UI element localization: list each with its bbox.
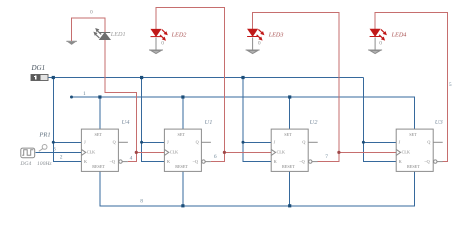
wire net7 LED3 to U2 ~Q and U3 CLK [253,13,397,162]
LED LED3 (red, on) [247,29,264,40]
wire net1 feeder to U1 J/K [142,78,165,162]
junction dot RESET bus to U2 [288,204,291,207]
wire net5 LED4 to U3 ~Q [375,13,447,162]
wire net3 PR1 clock to U4 CLK [35,151,81,153]
junction dot at U2 J branch [242,141,245,144]
LED LED2 (red, on) [151,29,168,40]
svg-text:LED2: LED2 [171,31,187,38]
svg-text:DG1: DG1 [31,64,46,72]
svg-text:5: 5 [449,82,452,88]
ground GND3 (below LED3) [246,38,260,54]
wire net1 feeder to U3 J/K [363,78,396,162]
svg-text:SET: SET [95,132,103,137]
flip-flop U1 [164,129,211,171]
junction dot SET bus to U4 [98,95,101,98]
svg-text:2: 2 [60,155,63,161]
junction dot at U3 J branch [362,141,365,144]
svg-text:CLK: CLK [277,150,285,155]
wire net1 bus from DG1 (horizontal J/K supply bus) [48,77,363,79]
svg-text:1: 1 [83,91,86,97]
svg-text:LED4: LED4 [391,31,407,38]
LED LED1 (gray, off) [93,28,110,40]
svg-text:100Hz: 100Hz [37,161,52,167]
digital constant DG1 [31,74,48,80]
svg-text:6: 6 [214,154,217,160]
svg-text:Q: Q [302,140,305,145]
clock source PR1 [21,148,35,158]
junction dot net6 at U2 CLK branch [223,151,226,154]
svg-text:K: K [399,159,402,164]
svg-text:0: 0 [258,40,261,46]
svg-text:DG4: DG4 [19,161,31,167]
flip-flop U2 [271,129,318,171]
junction dot net7 at U3 CLK branch [337,151,340,154]
svg-text:K: K [84,159,87,164]
wire net1 feeder to U4 J/K [53,78,81,162]
junction dot at U1 J branch [140,141,143,144]
svg-text:3: 3 [53,147,56,153]
PR1 interactive key icon [39,145,47,152]
wire net1 feeder to U2 J/K [243,78,271,162]
svg-text:RESET: RESET [407,164,420,169]
ground GND1 (left of LED1) [66,41,76,45]
svg-text:U3: U3 [435,119,444,126]
svg-text:CLK: CLK [170,150,178,155]
ground GND4 (below LED4) [368,38,382,54]
junction dot RESET bus to U1 [181,204,184,207]
junction dot SET bus to U2 [288,95,291,98]
svg-text:CLK: CLK [87,150,95,155]
svg-text:~Q: ~Q [110,159,115,164]
svg-text:~Q: ~Q [424,159,429,164]
junction dot on net1 bus at U2 feeder [241,76,244,79]
svg-text:U1: U1 [205,119,213,126]
ground GND2 (below LED2) [149,38,163,54]
svg-text:LED3: LED3 [268,31,284,38]
junction dot SET bus to U1 [181,95,184,98]
junction dot on net1 bus at U1 feeder [140,76,143,79]
svg-text:Q: Q [427,140,430,145]
junction dot at U4 J branch [52,141,55,144]
svg-text:0: 0 [90,10,93,16]
svg-text:4: 4 [130,155,133,161]
svg-text:LED1: LED1 [110,31,126,38]
flip-flop U3 [396,129,443,171]
svg-text:0: 0 [161,40,164,46]
svg-text:U4: U4 [122,119,131,126]
svg-text:~Q: ~Q [299,159,304,164]
wire net0 ground loop to LED1 [72,18,105,41]
svg-text:K: K [167,159,170,164]
svg-text:U2: U2 [310,119,319,126]
svg-text:SET: SET [178,132,186,137]
svg-text:K: K [274,159,277,164]
wire net8 RESET bus [100,171,415,205]
svg-text:Q: Q [196,140,199,145]
svg-text:Q: Q [113,140,116,145]
flip-flop U4 [81,129,128,171]
svg-text:CLK: CLK [402,150,410,155]
wire net6 LED2 to U1 ~Q and U2 CLK [156,7,271,161]
svg-text:~Q: ~Q [193,159,198,164]
junction dot at SET bus start [70,96,73,99]
svg-text:0: 0 [379,40,382,46]
junction dot net4 at U1 CLK branch [135,151,138,154]
svg-text:7: 7 [325,154,328,160]
svg-text:PR1: PR1 [38,132,50,139]
svg-text:SET: SET [409,132,417,137]
svg-text:RESET: RESET [175,164,188,169]
svg-text:SET: SET [284,132,292,137]
svg-text:RESET: RESET [92,164,105,169]
LED LED4 (red, on) [370,29,387,40]
junction dot on net1 bus at DG1 output [52,76,55,79]
svg-text:8: 8 [140,199,143,205]
svg-text:RESET: RESET [282,164,295,169]
wire net1 SET bus (horizontal) [72,97,415,129]
wire net4 LED1 to U4 ~Q and U1 CLK [105,40,165,162]
